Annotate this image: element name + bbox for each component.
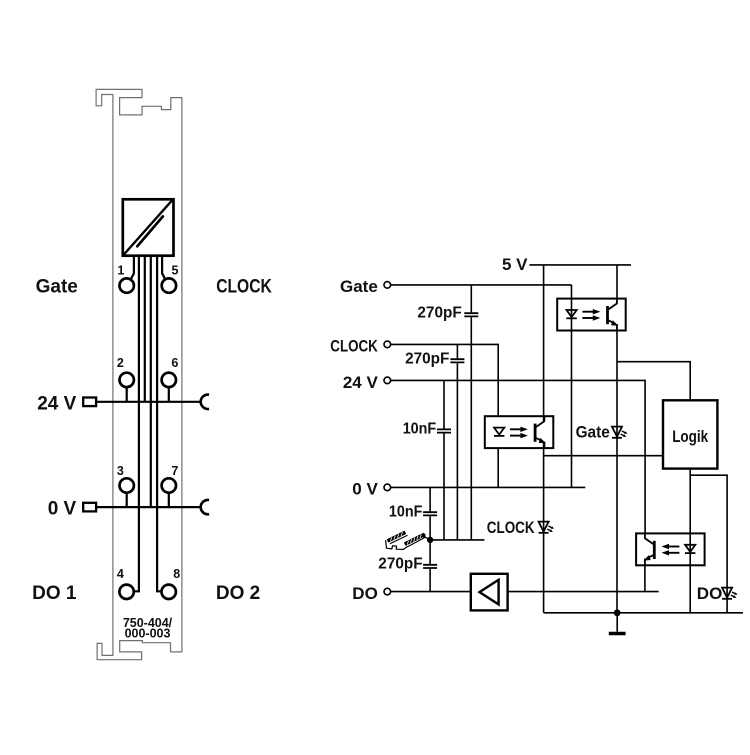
terminal Gate xyxy=(384,282,391,289)
terminal DO xyxy=(384,588,391,595)
wire DO line right xyxy=(508,591,659,593)
svg-text:10nF: 10nF xyxy=(403,421,437,438)
svg-text:0 V: 0 V xyxy=(352,480,378,499)
pin 3 xyxy=(120,478,134,507)
pin 6 xyxy=(162,373,176,402)
wire Logik branch to DO LED xyxy=(690,475,727,613)
wire DO line left xyxy=(391,591,471,593)
svg-text:270pF: 270pF xyxy=(378,556,423,573)
wire Gate line xyxy=(391,284,572,286)
capacitor C1 270pF wire xyxy=(470,285,472,540)
svg-text:DO 1: DO 1 xyxy=(32,583,77,604)
capacitor C4 10nF plates xyxy=(423,512,437,515)
svg-text:2: 2 xyxy=(117,356,124,370)
wire 5V rail xyxy=(529,264,631,266)
svg-text:270pF: 270pF xyxy=(405,350,450,367)
capacitor C2 270pF plates xyxy=(450,359,464,362)
svg-text:10nF: 10nF xyxy=(389,503,423,520)
svg-text:Logik: Logik xyxy=(672,427,708,446)
svg-text:DO 2: DO 2 xyxy=(216,583,260,604)
wire capacitor bus xyxy=(430,539,484,541)
wire U2 emitter down xyxy=(543,442,545,613)
LED CLOCK indicator xyxy=(539,522,554,533)
svg-text:Gate: Gate xyxy=(340,277,378,296)
capacitor C1 270pF plates xyxy=(464,313,478,316)
svg-text:6: 6 xyxy=(171,356,178,370)
svg-text:CLOCK: CLOCK xyxy=(216,276,272,297)
0V clamp arc xyxy=(201,500,209,514)
0V box terminal xyxy=(83,503,96,512)
Logik block xyxy=(663,400,717,468)
0V field wire xyxy=(96,506,201,508)
svg-text:7: 7 xyxy=(171,464,178,478)
svg-text:5 V: 5 V xyxy=(502,255,528,274)
LED Gate indicator xyxy=(612,427,627,438)
wire to 0V row xyxy=(150,256,152,507)
optocoupler U1 (Gate) xyxy=(557,299,626,331)
electronics block symbol xyxy=(123,199,174,255)
capacitor C5 270pF plates xyxy=(423,565,437,568)
capacitor C3 10nF wire xyxy=(443,380,445,540)
wire Gate LED through U1 xyxy=(571,285,573,488)
svg-text:3: 3 xyxy=(117,464,124,478)
svg-text:5: 5 xyxy=(172,264,179,278)
svg-text:000-003: 000-003 xyxy=(125,627,171,641)
wire to pin 1 xyxy=(131,256,134,280)
pin 1 xyxy=(120,278,134,292)
svg-text:DO: DO xyxy=(697,584,723,603)
wire to pin 4 xyxy=(134,256,139,592)
wire Logik to U3 LED xyxy=(689,469,691,613)
24V box terminal xyxy=(83,398,96,407)
pin 4 xyxy=(119,585,133,599)
pin 8 xyxy=(162,585,176,599)
svg-text:270pF: 270pF xyxy=(417,304,462,321)
svg-text:DO: DO xyxy=(352,584,378,603)
wire U1 emitter down xyxy=(616,324,618,612)
wire CLOCK line xyxy=(391,344,498,416)
wire U3 emitter to DO line xyxy=(644,559,646,592)
module outline xyxy=(96,89,182,659)
capacitor C4 10nF wire xyxy=(429,487,431,540)
pin 2 xyxy=(120,373,134,402)
pin 7 xyxy=(162,478,176,507)
ground bus xyxy=(544,612,743,614)
DIN rail shield icon xyxy=(386,532,431,549)
svg-text:0 V: 0 V xyxy=(48,498,77,519)
wire to pin 8 xyxy=(157,256,161,592)
junction ground bus xyxy=(614,609,621,616)
wire U1 emitter to Logik top xyxy=(617,362,690,401)
24V clamp arc xyxy=(201,395,209,409)
svg-text:24 V: 24 V xyxy=(343,373,379,392)
capacitor C3 10nF plates xyxy=(437,429,451,432)
svg-text:8: 8 xyxy=(173,567,180,581)
wire CLOCK LED cathode xyxy=(497,448,499,487)
wire 24V line xyxy=(391,380,645,533)
svg-text:CLOCK: CLOCK xyxy=(487,518,535,537)
24V field wire xyxy=(96,401,201,403)
svg-text:CLOCK: CLOCK xyxy=(330,337,378,356)
optocoupler U2 (CLOCK) xyxy=(485,416,554,448)
wire to 24V row xyxy=(144,256,146,402)
svg-text:Gate: Gate xyxy=(576,423,610,442)
svg-text:1: 1 xyxy=(117,264,124,278)
LED DO indicator xyxy=(722,588,737,599)
terminal 0V xyxy=(384,484,391,491)
capacitor C2 270pF wire xyxy=(456,344,458,540)
output driver amplifier xyxy=(471,574,508,611)
optocoupler U3 (DO) mirrored xyxy=(636,533,705,565)
svg-text:4: 4 xyxy=(117,567,124,581)
terminal 24V xyxy=(384,377,391,384)
terminal CLOCK xyxy=(384,341,391,348)
svg-text:24 V: 24 V xyxy=(37,394,76,415)
svg-text:Gate: Gate xyxy=(36,276,78,297)
wire to pin 5 xyxy=(162,256,165,280)
wire U3 collector segment xyxy=(644,533,646,538)
ground symbol xyxy=(609,613,626,634)
wire U2 collector from 5V xyxy=(543,265,545,421)
capacitor C5 270pF wire xyxy=(429,540,431,592)
pin 5 xyxy=(162,278,176,292)
wire U1 collector from 5V xyxy=(616,265,618,304)
junction capacitor bus xyxy=(427,537,433,543)
wire U2 emitter to Logik left xyxy=(544,455,663,457)
wire 0V line xyxy=(391,486,585,488)
